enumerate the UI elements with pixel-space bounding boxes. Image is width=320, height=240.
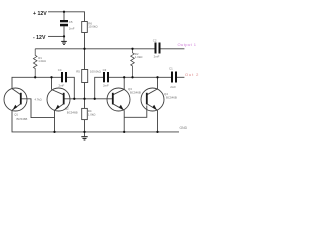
svg-text:2mF: 2mF [170,85,176,89]
svg-text:BC546B: BC546B [17,117,28,121]
svg-text:BC546B: BC546B [166,96,177,100]
svg-text:- 12V: - 12V [33,35,46,41]
svg-text:100.0kΩ: 100.0kΩ [90,70,102,74]
svg-text:2mF: 2mF [59,84,65,88]
svg-text:2mF: 2mF [154,54,160,58]
svg-text:C2: C2 [153,38,157,42]
svg-text:1.0kΩ: 1.0kΩ [38,59,46,63]
svg-text:2mF: 2mF [103,84,109,88]
svg-text:R5: R5 [76,70,80,74]
svg-text:C3: C3 [103,68,107,72]
svg-text:1.0kΩ: 1.0kΩ [88,112,96,116]
svg-text:BC546B: BC546B [130,91,141,95]
svg-text:4.7kΩ: 4.7kΩ [35,98,42,102]
svg-text:1.0kΩ: 1.0kΩ [135,55,143,59]
svg-text:C1: C1 [169,66,173,70]
svg-text:Out 2: Out 2 [185,72,199,77]
svg-text:+ 12V: + 12V [33,11,47,17]
svg-text:2mF: 2mF [69,26,75,30]
svg-text:C4: C4 [58,68,62,72]
svg-text:GND: GND [180,126,188,130]
svg-text:BC546B: BC546B [67,110,78,114]
svg-text:Output 1: Output 1 [178,42,197,47]
svg-text:C5: C5 [69,20,73,24]
svg-text:10.0kΩ: 10.0kΩ [88,24,98,28]
